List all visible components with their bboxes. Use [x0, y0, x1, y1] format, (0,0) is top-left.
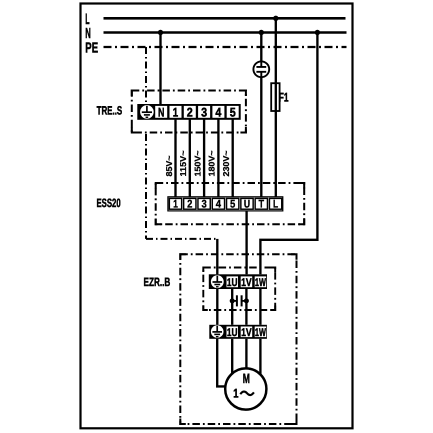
dashdot enclosure TRE.S: [132, 91, 246, 133]
label L: [85, 11, 89, 28]
svg-text:M: M: [243, 371, 250, 386]
wire fuse line (L to ESS20 L): [275, 18, 277, 197]
svg-text:3: 3: [201, 105, 207, 119]
node junction N/TRE.S: [158, 30, 163, 35]
svg-text:3: 3: [201, 199, 206, 211]
label 150V~: [192, 150, 202, 176]
svg-text:ESS20: ESS20: [97, 196, 121, 210]
node junction N/right drop: [315, 30, 320, 35]
terminal EZR.B upper 1U: [227, 277, 238, 289]
wire N bus: [104, 31, 347, 34]
terminal EZR.B upper earth: [211, 275, 224, 288]
terminal TRE.S 1: [173, 105, 178, 119]
svg-text:85V~: 85V~: [164, 155, 174, 176]
terminal ESS20 4: [216, 199, 222, 211]
wire tap 5: [232, 119, 234, 197]
wire N right drop to EZR.B 1W: [260, 33, 317, 275]
label ESS20: [97, 196, 121, 210]
svg-text:115V~: 115V~: [178, 150, 188, 176]
terminal EZR.B upper 1W: [255, 277, 266, 289]
terminal TRE.S 4: [215, 105, 221, 119]
wire earth block1 to block2: [216, 289, 218, 325]
label EZR..B: [144, 275, 171, 289]
terminal TRE.S 2: [187, 105, 193, 119]
wire 1V to motor: [245, 339, 247, 369]
svg-text:5: 5: [230, 105, 236, 119]
wire PE bus: [104, 46, 347, 48]
label 115V~: [178, 150, 188, 176]
dashdot enclosure EZR.B inner: [203, 268, 275, 311]
terminal EZR.B lower earth: [211, 325, 224, 338]
motor M1: [225, 368, 266, 409]
wire ESS20 U down to EZR.B 1V: [245, 211, 247, 274]
svg-text:PE: PE: [85, 40, 98, 56]
wire earth to motor: [217, 339, 226, 387]
terminal block TRE.S: [137, 104, 240, 120]
terminal EZR.B upper 1V: [241, 277, 252, 289]
wire tap 2: [189, 119, 191, 197]
wire tap 3: [203, 119, 205, 197]
svg-text:EZR..B: EZR..B: [144, 275, 171, 289]
label PE: [85, 40, 98, 56]
terminal block EZR.B lower: [209, 325, 267, 339]
dashdot enclosure EZR.B: [180, 254, 296, 424]
wire 1U to motor: [231, 339, 233, 375]
node junction L/fuse: [273, 16, 278, 21]
terminal TRE.S N: [158, 105, 164, 119]
svg-text:1: 1: [173, 105, 178, 119]
label F1: [279, 91, 289, 105]
terminal TRE.S 3: [201, 105, 207, 119]
terminal ESS20 L: [273, 199, 278, 211]
svg-text:T: T: [259, 199, 265, 211]
terminal ESS20 2: [187, 199, 192, 211]
svg-text:180V~: 180V~: [207, 150, 217, 176]
wire lamp line (N to ESS20 T): [260, 33, 262, 197]
terminal ESS20 1: [173, 199, 178, 211]
label 230V~: [221, 150, 231, 176]
svg-text:150V~: 150V~: [192, 150, 202, 176]
svg-text:2: 2: [187, 199, 192, 211]
wire 1U block1 to block2: [231, 289, 233, 325]
svg-text:U: U: [244, 199, 250, 211]
fuse F1: [271, 83, 279, 111]
wire N drop to TRE.S: [159, 33, 161, 105]
wire PE drop to EZR.B earth: [216, 239, 218, 274]
capacitor C between 1U and 1V: [232, 295, 246, 306]
svg-text:1V: 1V: [241, 327, 252, 339]
wire tap 4: [217, 119, 219, 197]
label TRE..S: [97, 103, 123, 117]
terminal TRE.S 5: [230, 105, 236, 119]
svg-text:1W: 1W: [255, 277, 266, 289]
terminal EZR.B lower 1W: [255, 327, 266, 339]
wire tap 1 (TRE.S 1 to ESS20 1): [174, 119, 176, 197]
node junction cap left: [230, 298, 235, 303]
svg-text:1U: 1U: [227, 277, 238, 289]
wire PE drop to TRE.S: [145, 47, 147, 105]
label 85V~: [164, 155, 174, 176]
terminal ESS20 5: [230, 199, 235, 211]
svg-text:L: L: [273, 199, 278, 211]
terminal block ESS20: [168, 197, 283, 211]
terminal ESS20 U: [244, 199, 250, 211]
wire PE lower vertical: [145, 134, 147, 239]
dashdot enclosure ESS20: [156, 183, 305, 224]
terminal block EZR.B upper: [209, 274, 267, 289]
svg-text:TRE..S: TRE..S: [97, 103, 123, 117]
svg-text:4: 4: [215, 105, 221, 119]
svg-text:2: 2: [187, 105, 193, 119]
svg-text:1U: 1U: [227, 327, 238, 339]
wire 1W block1 to block2: [259, 289, 261, 325]
border frame: [81, 4, 353, 429]
terminal ESS20 3: [201, 199, 206, 211]
terminal EZR.B lower 1V: [241, 327, 252, 339]
label N: [85, 26, 91, 42]
node junction N/lamp: [259, 30, 264, 35]
wire PE lower horizontal: [146, 238, 218, 240]
svg-text:1: 1: [233, 386, 238, 400]
wire L bus: [104, 17, 346, 20]
wire 1W to motor: [259, 339, 261, 375]
svg-text:1V: 1V: [241, 277, 252, 289]
svg-text:5: 5: [230, 199, 235, 211]
terminal EZR.B lower 1U: [227, 327, 238, 339]
lamp H1 (glow lamp): [253, 61, 269, 77]
svg-text:N: N: [158, 105, 164, 119]
svg-text:4: 4: [216, 199, 222, 211]
wire 1V block1 to block2: [245, 289, 247, 325]
svg-text:F1: F1: [279, 91, 289, 105]
label 180V~: [207, 150, 217, 176]
terminal ESS20 T: [259, 199, 265, 211]
terminal TRE.S earth: [140, 105, 154, 119]
svg-text:1W: 1W: [255, 327, 266, 339]
svg-text:1: 1: [173, 199, 178, 211]
node junction cap right: [244, 298, 249, 303]
svg-text:230V~: 230V~: [221, 150, 231, 176]
